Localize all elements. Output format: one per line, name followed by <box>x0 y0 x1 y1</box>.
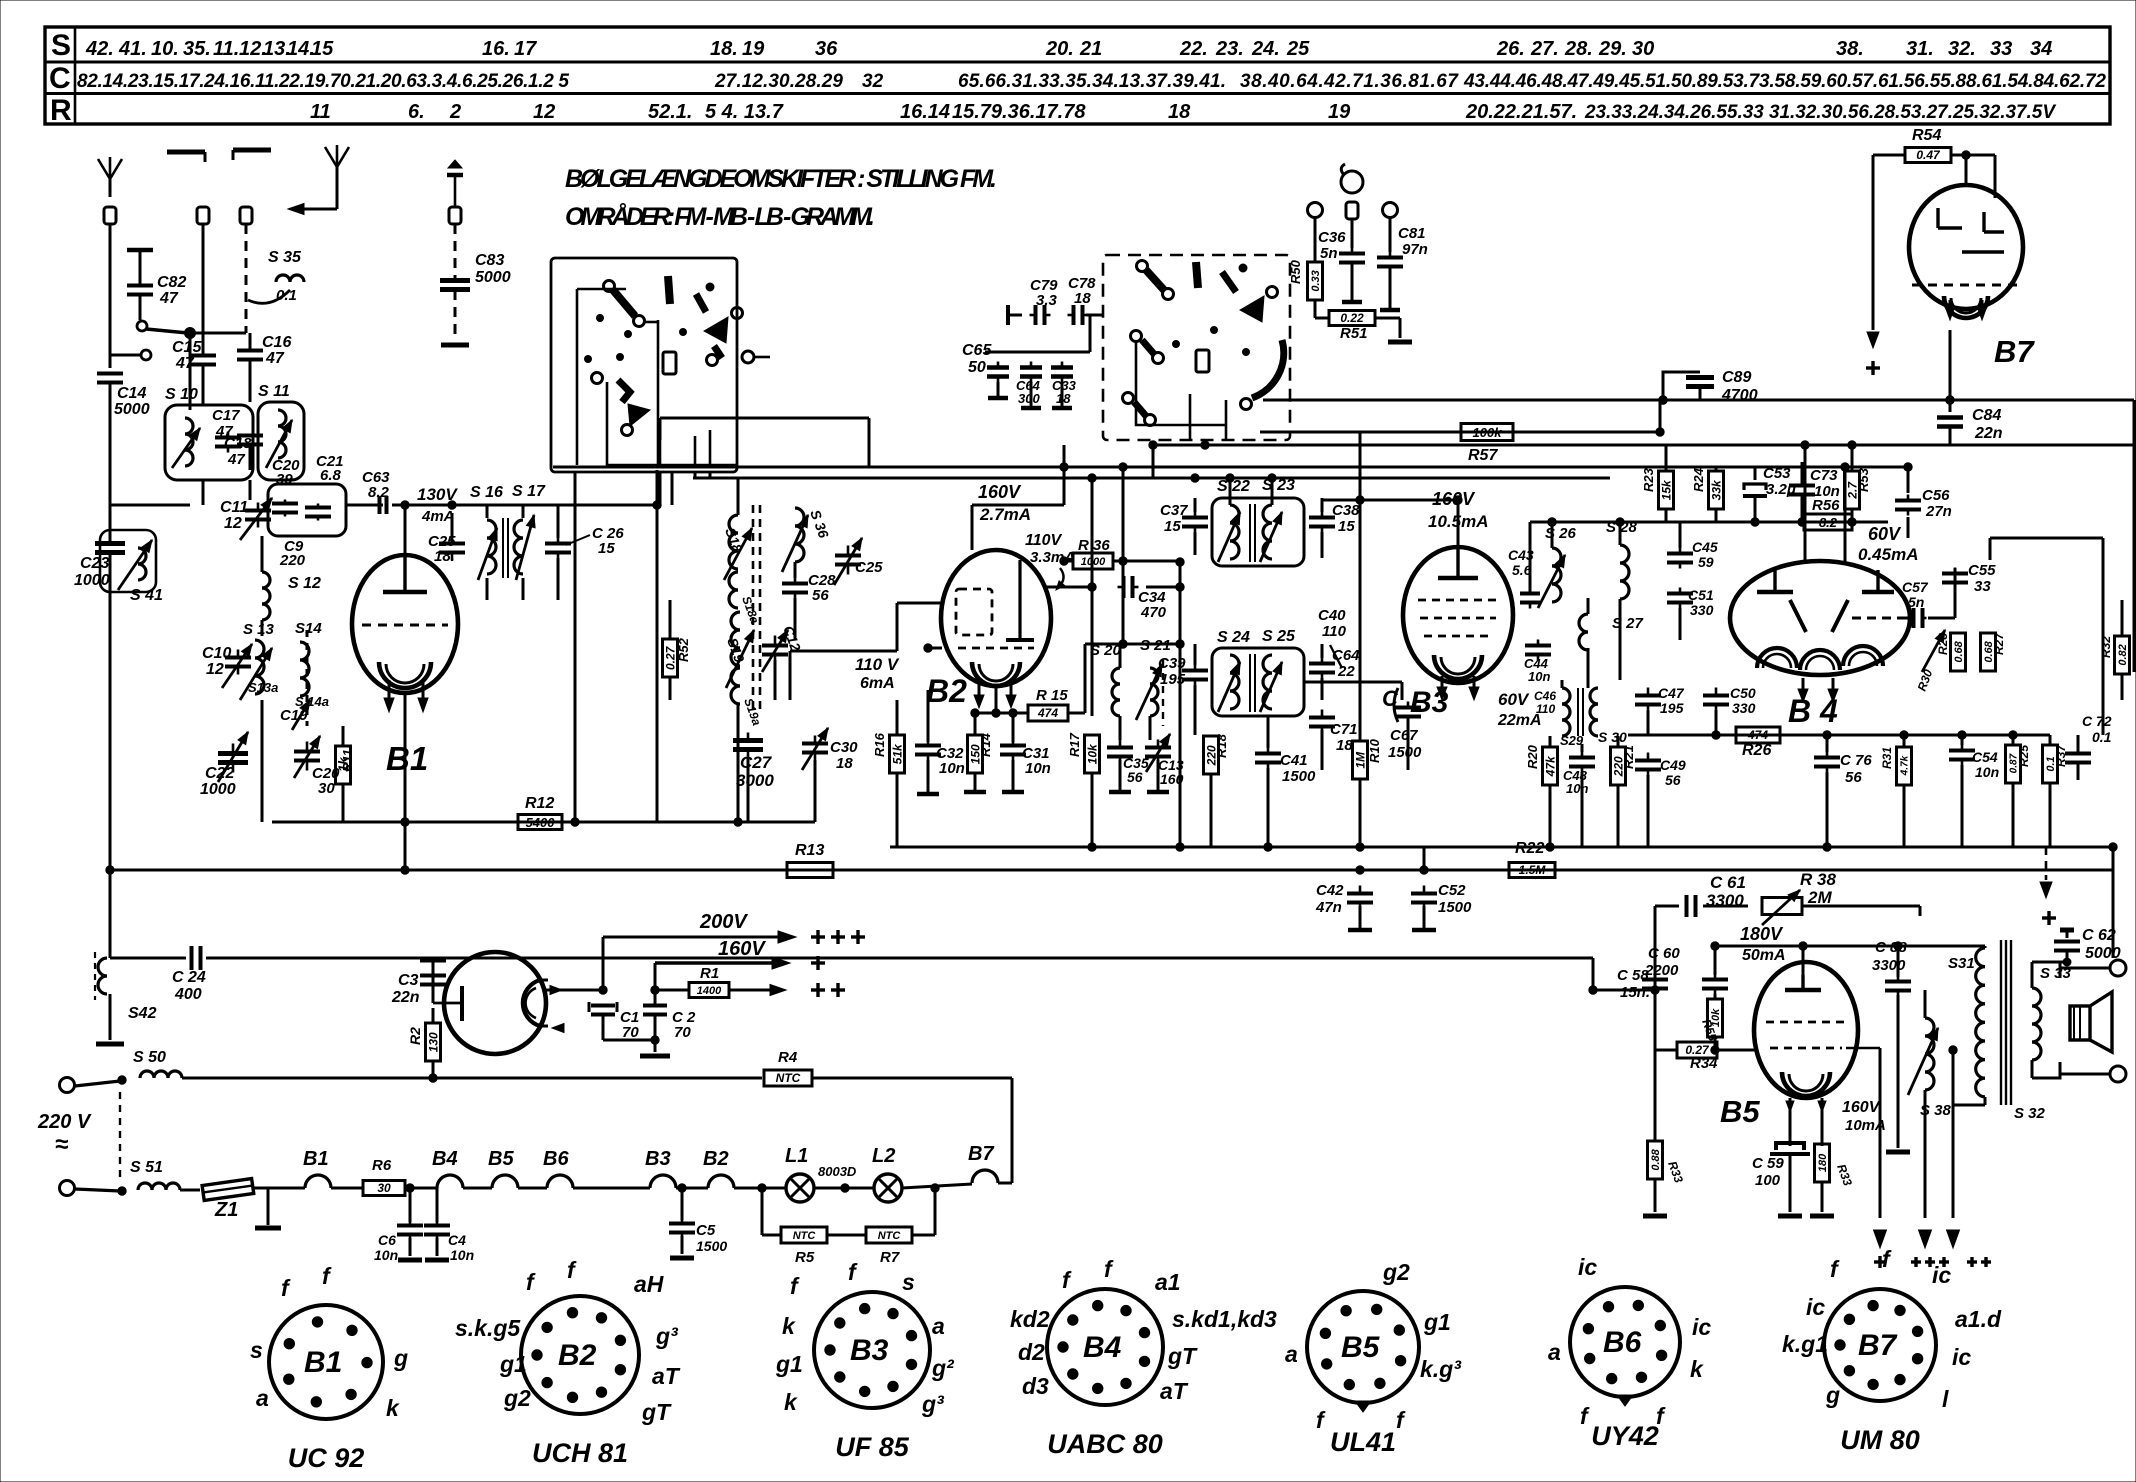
capacitor C11 variable <box>220 498 272 540</box>
plug P1 <box>104 207 116 224</box>
node jack J1 <box>1308 203 1323 263</box>
svg-text:S 16: S 16 <box>470 484 503 501</box>
svg-text:5000: 5000 <box>114 401 150 418</box>
svg-text:12: 12 <box>224 515 242 532</box>
svg-text:NTC: NTC <box>776 1071 801 1085</box>
node B4 label <box>1788 693 1838 729</box>
svg-text:C23: C23 <box>80 555 109 572</box>
wire long bus y445 <box>1150 441 2134 449</box>
svg-text:220: 220 <box>279 552 306 569</box>
capacitor C27 <box>733 733 774 801</box>
resistor R15 <box>1013 644 1085 721</box>
capacitor C25 <box>428 513 465 565</box>
svg-text:R28: R28 <box>1936 633 1950 655</box>
svg-text:R34: R34 <box>1690 1055 1718 1072</box>
svg-text:R 38: R 38 <box>1800 870 1836 889</box>
capacitor C53 <box>1743 465 1796 522</box>
svg-text:27.: 27. <box>1530 38 1559 60</box>
svg-text:10n: 10n <box>374 1247 398 1263</box>
svg-text:C89: C89 <box>1722 369 1751 386</box>
antenna A2 <box>325 145 349 185</box>
svg-text:2M: 2M <box>1807 888 1832 907</box>
svg-text:B7: B7 <box>1858 1329 1898 1362</box>
svg-text:1400: 1400 <box>697 985 722 997</box>
tube socket B1 (UC 92) <box>250 1263 408 1473</box>
resistor R51 <box>1315 300 1412 342</box>
svg-text:C5: C5 <box>696 1222 716 1239</box>
wire R26 rail <box>1628 731 2050 739</box>
tube B4 envelope <box>1730 561 1910 675</box>
capacitor C76 <box>1814 735 1872 847</box>
svg-text:C37: C37 <box>1160 502 1188 519</box>
svg-text:B7: B7 <box>1994 334 2035 369</box>
transformer S33 secondary <box>2032 962 2072 1078</box>
node B1 heater <box>303 1148 331 1188</box>
capacitor C52 <box>1411 866 1472 930</box>
wire B2 grid <box>790 603 942 700</box>
svg-text:18: 18 <box>1336 737 1353 754</box>
svg-text:474: 474 <box>1747 728 1768 742</box>
capacitor C6 <box>374 1184 423 1263</box>
coil S19 <box>724 612 754 688</box>
wire wafer1 left drop <box>574 472 577 822</box>
svg-text:10n: 10n <box>1975 764 1999 780</box>
svg-text:C27: C27 <box>740 753 773 772</box>
capacitor C51 <box>1667 587 1714 640</box>
svg-text:1000: 1000 <box>74 572 110 589</box>
svg-text:S31: S31 <box>1948 955 1975 972</box>
node S row label <box>51 29 71 62</box>
tube B3 envelope <box>1403 547 1513 683</box>
svg-text:200V: 200V <box>699 911 748 933</box>
svg-text:S 21: S 21 <box>1140 637 1171 654</box>
tube B5 heater leads <box>1786 1098 1826 1146</box>
capacitor C42 <box>1315 866 1373 930</box>
transformer S29/S30 <box>1534 688 1627 748</box>
svg-text:8.2: 8.2 <box>1819 515 1838 530</box>
svg-text:d2: d2 <box>1018 1339 1045 1365</box>
wire misc right <box>1898 568 1955 618</box>
svg-text:195: 195 <box>1160 671 1186 688</box>
svg-text:R10: R10 <box>1367 738 1382 763</box>
capacitor C10 variable <box>202 644 252 688</box>
svg-text:R7: R7 <box>880 1249 900 1266</box>
capacitor C44 <box>1524 640 1551 685</box>
wire S17 secondary <box>487 505 523 600</box>
svg-text:gT: gT <box>1167 1343 1198 1369</box>
node 60V 22mA label <box>1497 690 1542 729</box>
capacitor C35 <box>1107 740 1149 793</box>
resistor R57 <box>1461 424 1513 465</box>
node 110V label B2 top <box>1025 532 1075 590</box>
svg-text:10n: 10n <box>1025 760 1051 777</box>
node capacitor-row numbers <box>77 71 2106 92</box>
transformer S24/S25 coils <box>1218 654 1282 712</box>
svg-text:g1: g1 <box>1423 1309 1451 1335</box>
svg-text:S 17: S 17 <box>512 483 546 500</box>
svg-text:20.22.21.57.: 20.22.21.57. <box>1465 101 1577 123</box>
resistor R54 <box>1905 127 1951 163</box>
svg-text:R2: R2 <box>407 1027 423 1045</box>
svg-text:32: 32 <box>862 71 884 92</box>
svg-text:C51: C51 <box>1688 587 1714 603</box>
svg-text:S29: S29 <box>1560 733 1584 748</box>
wire 160V rail <box>655 957 790 990</box>
node B7 heater <box>968 1143 1012 1183</box>
capacitor C31 <box>1000 713 1051 792</box>
svg-text:B1: B1 <box>304 1346 342 1379</box>
coil S11 box <box>258 383 304 480</box>
svg-text:11.: 11. <box>213 38 239 60</box>
resistor R50 <box>1288 259 1323 300</box>
node wave-switch wafer 2 <box>1103 255 1290 440</box>
svg-text:17: 17 <box>514 38 537 60</box>
svg-text:470: 470 <box>1140 604 1167 621</box>
svg-text:70: 70 <box>622 1024 639 1041</box>
svg-text:S42: S42 <box>128 1005 157 1022</box>
svg-text:R: R <box>50 94 72 127</box>
resistor R17 <box>1067 732 1100 847</box>
resistor R24 <box>1691 467 1724 522</box>
wire S18 dashed core <box>753 505 760 712</box>
svg-text:34: 34 <box>2030 38 2052 60</box>
wire B6 output <box>546 931 796 994</box>
svg-text:18.: 18. <box>434 548 455 565</box>
svg-text:C40: C40 <box>1318 607 1346 624</box>
svg-text:s.k.g5: s.k.g5 <box>455 1315 521 1341</box>
wire R54 right <box>1951 155 1995 198</box>
svg-text:B4: B4 <box>432 1148 458 1170</box>
svg-text:30: 30 <box>318 780 335 797</box>
svg-text:47: 47 <box>159 290 179 307</box>
svg-text:R22: R22 <box>1515 840 1544 857</box>
svg-text:28.: 28. <box>1564 38 1593 60</box>
svg-text:5 4. 13.7: 5 4. 13.7 <box>705 101 784 123</box>
node B4 heater <box>432 1148 463 1188</box>
capacitor C56 <box>1895 463 1952 538</box>
svg-text:k.g1: k.g1 <box>1782 1331 1828 1357</box>
node 180V label <box>1740 924 1786 964</box>
svg-text:160V: 160V <box>1842 1099 1881 1116</box>
tube socket B3 (UF 85) <box>775 1259 955 1462</box>
capacitor C63 <box>362 469 390 514</box>
svg-text:27.12.30.28.29: 27.12.30.28.29 <box>714 71 843 92</box>
svg-text:B2: B2 <box>926 673 967 709</box>
svg-text:L1: L1 <box>785 1145 808 1167</box>
svg-text:1500: 1500 <box>1388 744 1422 761</box>
svg-text:38.40.64.42.71.36.81.67: 38.40.64.42.71.36.81.67 <box>1240 71 1459 92</box>
svg-text:8.2: 8.2 <box>368 484 390 501</box>
svg-text:400: 400 <box>174 986 202 1003</box>
svg-text:ic: ic <box>1806 1294 1825 1320</box>
node C row label <box>49 62 71 95</box>
fuse Z1 <box>202 1179 281 1228</box>
capacitor C1 <box>589 1002 655 1041</box>
svg-text:a1.d: a1.d <box>1955 1306 2002 1332</box>
svg-text:k: k <box>782 1313 796 1339</box>
svg-text:C65: C65 <box>962 342 992 359</box>
svg-text:29.: 29. <box>1598 38 1627 60</box>
svg-text:180V: 180V <box>1740 924 1784 944</box>
wire mid column <box>657 470 795 822</box>
svg-text:12: 12 <box>206 661 224 678</box>
svg-text:R23: R23 <box>1641 467 1656 492</box>
capacitor C64b <box>1016 362 1042 409</box>
node 160V label <box>718 938 766 960</box>
svg-text:R53: R53 <box>1856 467 1871 492</box>
svg-text:38.: 38. <box>1836 38 1864 60</box>
resistor R25 <box>2006 731 2032 847</box>
svg-text:42.: 42. <box>85 38 114 60</box>
wire osc to tube <box>262 505 383 822</box>
svg-text:S 32: S 32 <box>2014 1105 2046 1122</box>
tube B3 internals <box>1418 548 1498 679</box>
svg-text:d3: d3 <box>1022 1373 1049 1399</box>
switch S50 <box>75 1049 433 1086</box>
resistor R14 <box>964 713 993 792</box>
lamp L2 <box>814 1145 902 1202</box>
resistor R7 NTC <box>866 1184 939 1266</box>
node plus marks HT <box>811 930 865 997</box>
svg-text:R13: R13 <box>795 842 824 859</box>
wire R54 left <box>1867 155 1905 348</box>
svg-text:20.: 20. <box>1045 38 1074 60</box>
svg-text:B6: B6 <box>1603 1326 1642 1359</box>
plug P2 <box>197 207 209 224</box>
wire S35 to C16 lead <box>189 333 192 410</box>
svg-text:R21: R21 <box>1621 745 1636 769</box>
capacitor C82 <box>127 250 186 320</box>
tube socket B4 (UABC 80) <box>1010 1256 1277 1459</box>
resistor R52 <box>663 600 692 700</box>
svg-text:47: 47 <box>175 355 195 372</box>
svg-text:18: 18 <box>1056 391 1071 406</box>
svg-text:C25: C25 <box>855 559 883 576</box>
svg-text:R24: R24 <box>1691 467 1706 492</box>
capacitor C38 <box>1309 498 1360 558</box>
capacitor C78 <box>1068 275 1097 325</box>
svg-text:UF 85: UF 85 <box>835 1432 910 1462</box>
wire S20 top rail <box>1085 640 1184 648</box>
svg-text:100k: 100k <box>1473 425 1503 440</box>
svg-text:6mA: 6mA <box>860 675 895 692</box>
svg-text:C52: C52 <box>1438 882 1466 899</box>
svg-text:23.33.24.34.26.55.33 31.32.30.: 23.33.24.34.26.55.33 31.32.30.56.28.53.2… <box>1584 102 2056 123</box>
capacitor C47 <box>1635 685 1685 735</box>
capacitor C62 <box>2032 927 2121 966</box>
svg-text:g: g <box>393 1345 408 1371</box>
svg-text:47n: 47n <box>1315 899 1342 916</box>
svg-text:3.3: 3.3 <box>1036 292 1058 309</box>
wire S26 rail <box>1530 518 1556 592</box>
svg-text:50: 50 <box>968 359 986 376</box>
svg-text:47: 47 <box>265 350 285 367</box>
transformer S24/S25 box <box>1212 628 1304 716</box>
svg-text:97n: 97n <box>1402 241 1428 258</box>
tube B1 internals <box>362 555 448 712</box>
svg-text:C81: C81 <box>1398 225 1426 242</box>
svg-text:l: l <box>1942 1386 1949 1412</box>
svg-text:C47: C47 <box>1658 685 1685 701</box>
node switch-row numbers <box>85 38 2052 60</box>
capacitor C23 and tuning gang S41 <box>74 530 163 604</box>
capacitor C28 <box>782 562 836 604</box>
svg-text:g1: g1 <box>499 1351 527 1377</box>
wire wafer1 stubs <box>660 472 710 505</box>
svg-text:k.g³: k.g³ <box>1420 1356 1462 1382</box>
svg-text:g2: g2 <box>503 1385 531 1411</box>
wire B3 anode <box>1322 496 1462 548</box>
svg-text:0.33: 0.33 <box>1310 270 1322 291</box>
wire 505 rail right <box>480 501 661 509</box>
capacitor C25b variable <box>834 538 883 585</box>
capacitor C16 <box>237 333 291 402</box>
svg-text:195: 195 <box>1660 700 1684 716</box>
svg-text:50mA: 50mA <box>1742 947 1786 964</box>
svg-text:C55: C55 <box>1968 562 1996 579</box>
svg-text:1500: 1500 <box>1438 899 1472 916</box>
svg-text:56: 56 <box>1127 769 1143 785</box>
svg-text:1500: 1500 <box>696 1238 727 1254</box>
svg-text:UL41: UL41 <box>1330 1427 1396 1457</box>
svg-text:C50: C50 <box>1730 685 1756 701</box>
svg-text:S 23: S 23 <box>1262 477 1295 494</box>
wire B1 anode <box>401 501 409 555</box>
svg-text:C46: C46 <box>1534 689 1556 703</box>
coil S36 <box>782 508 832 572</box>
svg-text:B1: B1 <box>386 740 428 777</box>
tube B6 internals <box>433 980 564 1033</box>
svg-text:474: 474 <box>1037 706 1058 720</box>
node 160V label B2 <box>978 482 1031 524</box>
svg-text:C30: C30 <box>830 739 858 756</box>
wire anode rail <box>392 501 480 509</box>
node headline 1 <box>565 165 997 193</box>
svg-text:30: 30 <box>377 1181 391 1195</box>
svg-text:110: 110 <box>1536 702 1555 716</box>
node S13a label <box>248 680 278 695</box>
svg-text:6.8: 6.8 <box>320 467 342 484</box>
wire heater chain 1 <box>253 1187 305 1190</box>
resistor R11 <box>336 726 356 822</box>
svg-text:160: 160 <box>1160 771 1184 787</box>
resistor R13 <box>787 842 833 878</box>
resistor R36 <box>1060 537 1184 569</box>
node B6 heater <box>518 1148 573 1188</box>
node wave-switch wafer 1 <box>551 258 770 472</box>
wire x1180 column <box>1179 561 1182 847</box>
capacitor C54 <box>1949 735 1999 847</box>
svg-text:21: 21 <box>1079 38 1102 60</box>
wire b1 drops <box>110 333 203 505</box>
svg-text:g³: g³ <box>655 1323 679 1349</box>
svg-text:S 26: S 26 <box>1545 525 1577 542</box>
capacitor C48 <box>1563 744 1595 847</box>
resistor R33 <box>1810 1144 1855 1216</box>
svg-text:16.: 16. <box>482 38 510 60</box>
svg-text:6.: 6. <box>408 101 425 123</box>
svg-text:a: a <box>1285 1341 1298 1367</box>
capacitor C19 <box>280 700 310 730</box>
capacitor C49 <box>1635 753 1686 848</box>
svg-text:C 62: C 62 <box>2082 927 2116 944</box>
svg-text:C16: C16 <box>262 334 291 351</box>
svg-text:160V: 160V <box>978 482 1022 502</box>
wire bus B <box>890 843 2117 851</box>
capacitor C64 <box>1309 644 1360 700</box>
capacitor C58 <box>1617 967 1668 1050</box>
capacitor C17 <box>212 407 241 453</box>
svg-text:0.68: 0.68 <box>1953 640 1965 662</box>
svg-text:C4: C4 <box>448 1232 466 1248</box>
wire heater top rail <box>433 1077 762 1080</box>
svg-text:C83: C83 <box>475 252 504 269</box>
capacitor C84 <box>1937 400 2003 445</box>
wire drops misc <box>405 693 815 870</box>
wire R57 line <box>1260 431 1660 434</box>
svg-text:S 27: S 27 <box>1612 615 1644 632</box>
wire C45 links <box>1679 522 1682 548</box>
svg-text:1500: 1500 <box>1282 768 1316 785</box>
svg-text:220 V: 220 V <box>37 1111 92 1133</box>
svg-text:R50: R50 <box>1288 259 1303 284</box>
svg-text:18: 18 <box>1074 290 1091 307</box>
wire S31 bottom <box>1947 1046 1986 1248</box>
capacitor C32 <box>915 644 965 794</box>
oscillator box C9/C21 <box>268 453 346 569</box>
capacitor C43 <box>1508 547 1540 609</box>
svg-text:15.79.36.17.78: 15.79.36.17.78 <box>952 101 1086 123</box>
svg-text:B1: B1 <box>303 1148 329 1170</box>
svg-text:R 15: R 15 <box>1036 687 1068 704</box>
capacitor C34 <box>1118 576 1185 621</box>
svg-text:R14: R14 <box>978 732 993 757</box>
svg-text:33: 33 <box>1990 38 2012 60</box>
svg-text:Z1: Z1 <box>214 1199 238 1221</box>
svg-text:C10: C10 <box>202 645 231 662</box>
svg-text:gT: gT <box>641 1399 672 1425</box>
svg-text:10n: 10n <box>939 760 965 777</box>
svg-text:C67: C67 <box>1390 727 1418 744</box>
svg-text:S 12: S 12 <box>288 575 321 592</box>
svg-text:B3: B3 <box>850 1334 889 1367</box>
svg-text:C 60: C 60 <box>1648 945 1680 962</box>
node R row label <box>50 94 72 127</box>
capacitor C15 <box>172 330 216 405</box>
svg-text:B5: B5 <box>488 1148 514 1170</box>
svg-text:L2: L2 <box>872 1145 895 1167</box>
capacitor C88 <box>1872 939 1911 1152</box>
svg-text:≈: ≈ <box>55 1131 68 1158</box>
wire x1064 column <box>1063 445 1066 467</box>
wire C34 rail <box>1046 583 1096 591</box>
svg-text:22.: 22. <box>1179 38 1208 60</box>
capacitor C55 <box>1942 562 1996 600</box>
resistor R38 variable <box>1703 870 1920 925</box>
coil S28 <box>1606 519 1638 612</box>
svg-text:ic: ic <box>1952 1344 1971 1370</box>
svg-text:15: 15 <box>311 38 334 60</box>
plug P4 <box>447 160 463 224</box>
transformer S22/S23 box <box>1212 477 1304 566</box>
wire 180V rail <box>1715 942 1898 975</box>
potentiometer R30 <box>1915 630 1945 693</box>
wire ratio-det rails <box>1530 518 1666 680</box>
svg-text:56: 56 <box>812 587 829 604</box>
coil S18a <box>729 572 762 626</box>
svg-text:S14: S14 <box>295 620 322 637</box>
svg-text:C54: C54 <box>1972 749 1998 765</box>
